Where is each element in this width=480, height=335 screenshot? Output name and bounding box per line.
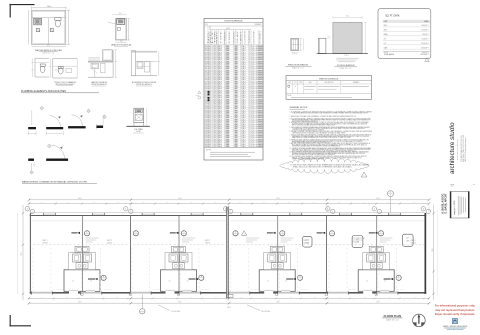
svg-text:WSTRIP: WSTRIP [254, 31, 256, 44]
floor plan: tiny texts above bottom wall [56, 289, 404, 291]
svg-text:484 SQ FT: 484 SQ FT [421, 47, 428, 49]
floor plan: right vertical dimension line [432, 205, 438, 300]
svg-text:8-2: 8-2 [403, 300, 405, 302]
svg-text:REMARKS: REMARKS [255, 23, 262, 26]
svg-text:architecture: architecture [449, 141, 456, 174]
svg-text:A: A [327, 208, 329, 211]
svg-text:10-6: 10-6 [41, 297, 44, 299]
svg-text:may not represent final produc: may not represent final product. [435, 308, 475, 312]
svg-text:12-3: 12-3 [239, 202, 242, 204]
svg-text:12-3: 12-3 [93, 202, 96, 204]
floor plan: dimension lines above [28, 198, 431, 212]
svg-text:1: 1 [332, 211, 333, 213]
svg-text:LABEL: LABEL [239, 31, 242, 44]
floor plan: bottom exterior wall [30, 292, 426, 293]
diagram: door maneuvering clearances row 2 [28, 144, 68, 175]
svg-text:28'-0: 28'-0 [432, 248, 434, 251]
svg-text:2 HOUR WALL: 2 HOUR WALL [261, 310, 271, 313]
svg-text:12-3: 12-3 [214, 202, 217, 204]
svg-text:12-3: 12-3 [363, 202, 366, 204]
floor plan: garage door track dashed lines [33, 248, 397, 292]
svg-text:SCALE: 1/4" = 1'-0": SCALE: 1/4" = 1'-0" [340, 67, 353, 70]
door schedule symbol dots [208, 91, 210, 101]
svg-text:9-0x7-0 OH DR: 9-0x7-0 OH DR [396, 289, 404, 291]
floor plan: circle markers row (upper) [84, 231, 383, 237]
floor plan: unit 3 furnace and water heater stack [264, 246, 291, 269]
svg-text:1: 1 [130, 211, 131, 213]
svg-text:UNIT 1: UNIT 1 [42, 240, 47, 242]
title block: architect name [442, 193, 448, 214]
floor plan: inner face line below top wall [29, 220, 424, 222]
svg-text:8-2: 8-2 [153, 300, 155, 302]
floor plan: dimension lines below [28, 297, 431, 309]
svg-text:NOTES:: NOTES: [206, 149, 212, 151]
floor plan: leader note 1 below [158, 305, 181, 313]
svg-text:C: C [142, 310, 143, 312]
svg-text:24'-6: 24'-6 [276, 198, 279, 200]
svg-text:9'-2: 9'-2 [47, 45, 50, 47]
svg-text:12-3: 12-3 [190, 202, 193, 204]
svg-text:FIRE: FIRE [229, 31, 231, 44]
svg-text:10-6: 10-6 [165, 297, 168, 299]
svg-text:10-6: 10-6 [290, 297, 293, 299]
detail: water heater stand [126, 108, 149, 133]
svg-text:B: B [103, 276, 104, 278]
svg-text:8-2: 8-2 [53, 300, 55, 302]
svg-text:A: A [374, 208, 376, 211]
detail: kitchen elevation D6 [131, 51, 160, 76]
floor plan: window mullions top wall [43, 213, 400, 216]
revision triangle 2 [361, 172, 367, 177]
svg-text:THK: THK [214, 31, 216, 44]
floor plan: unit 4 furnace and water heater stack [363, 246, 390, 269]
floor plan: left vertical dimension line [18, 205, 25, 300]
door schedule data rows [204, 45, 265, 148]
svg-text:4'-0: 4'-0 [119, 13, 122, 15]
svg-text:W.H. STAND: W.H. STAND [134, 128, 144, 131]
svg-text:DATA: DATA [356, 241, 360, 244]
svg-text:STOR.: STOR. [384, 52, 389, 54]
detail: toilet elevation D3 [31, 58, 49, 77]
keynote bubble with stem [388, 191, 394, 214]
label: floor plan title [382, 314, 402, 321]
label for detail D1 [35, 49, 62, 55]
corner mark bottom-left [10, 315, 32, 327]
svg-text:G. BASIL ARCHT: G. BASIL ARCHT [445, 193, 448, 214]
svg-text:studio: studio [449, 122, 456, 140]
svg-text:10-6: 10-6 [414, 297, 417, 299]
svg-text:LAVATORY ROOM PLAN: LAVATORY ROOM PLAN [111, 43, 132, 46]
svg-text:10-6: 10-6 [91, 297, 94, 299]
svg-text:1292 SQ FT: 1292 SQ FT [420, 54, 428, 56]
svg-text:9-0x7-0 OH DR: 9-0x7-0 OH DR [201, 289, 209, 291]
svg-text:24'-6: 24'-6 [178, 198, 181, 200]
svg-text:3'-0: 3'-0 [328, 36, 330, 38]
svg-text:KIT.: KIT. [384, 38, 387, 40]
floor plan: interior partitions [83, 216, 377, 293]
svg-text:112 SQ FT: 112 SQ FT [421, 38, 428, 40]
svg-text:3: 3 [213, 146, 214, 148]
floor plan: keyed callout boxes [303, 234, 414, 247]
detail: lavatory elevation D5 [88, 50, 117, 77]
floor plan: revision triangle at center wall [242, 231, 247, 236]
svg-text:12-3: 12-3 [142, 202, 145, 204]
svg-text:10-6: 10-6 [364, 297, 367, 299]
floor plan: unit 2 mechanical closet [161, 270, 197, 294]
svg-text:UNIT 3: UNIT 3 [205, 240, 210, 242]
title block: address lines [460, 135, 467, 162]
floor plan: unit 4 mechanical closet [358, 270, 394, 294]
builder logo [443, 318, 468, 331]
svg-text:10-6: 10-6 [190, 297, 193, 299]
svg-text:5-0: 5-0 [169, 281, 171, 283]
table: sq ft data [378, 9, 431, 59]
svg-text:5-0: 5-0 [366, 281, 368, 283]
svg-text:8-2: 8-2 [228, 300, 230, 302]
floor plan: small circles at partition feet [81, 293, 378, 296]
svg-text:TYP. 6: TYP. 6 [293, 54, 297, 56]
svg-text:A: A [282, 231, 283, 234]
svg-text:www.basilgrund.example: www.basilgrund.example [447, 328, 464, 331]
svg-text:3: 3 [249, 146, 250, 148]
label: door elevation [334, 64, 357, 70]
label for detail D5 [91, 81, 107, 86]
svg-text:A: A [381, 231, 382, 234]
floor plan: leader arrows lower [88, 278, 393, 280]
svg-text:BATH: BATH [384, 33, 388, 36]
svg-text:WINDOW ELEVATION: WINDOW ELEVATION [288, 64, 309, 67]
heading: plumbing elements and facilities [21, 90, 99, 93]
heading: general notes [290, 106, 308, 109]
svg-text:10-6: 10-6 [339, 297, 342, 299]
svg-text:1255 WEST MAIN STREET SUITE 2: 1255 WEST MAIN STREET SUITE 201 [460, 135, 463, 161]
svg-text:16'-0: 16'-0 [346, 16, 349, 18]
svg-text:MASTER BATH ROOM PLAN: MASTER BATH ROOM PLAN [35, 49, 62, 52]
svg-text:DOOR SCHEDULE: DOOR SCHEDULE [224, 21, 243, 23]
svg-text:12-3: 12-3 [387, 202, 390, 204]
svg-text:8-2: 8-2 [203, 300, 205, 302]
floor plan: unit 1 furnace and water heater stack [69, 246, 96, 269]
svg-text:1: 1 [210, 146, 211, 148]
svg-text:THRESH: THRESH [249, 31, 251, 44]
svg-text:A: A [332, 231, 333, 234]
disclaimer red text [435, 304, 476, 316]
svg-text:WD: WD [210, 27, 212, 44]
svg-text:UNIT: UNIT [356, 239, 359, 241]
floor plan: unit 1 mechanical closet [64, 270, 100, 294]
svg-text:8-2: 8-2 [278, 300, 280, 302]
floor plan: unit dividing wall 2 [326, 216, 328, 293]
svg-text:DATA: DATA [406, 239, 410, 242]
svg-text:WINDOW SCHEDULE: WINDOW SCHEDULE [319, 78, 339, 80]
table: window schedule [286, 76, 372, 100]
svg-text:10-6: 10-6 [116, 297, 119, 299]
svg-text:B: B [398, 276, 399, 278]
detail: window elevation [291, 38, 304, 55]
svg-text:NO.: NO. [208, 28, 210, 43]
floor plan: dropped keynote circle below [140, 294, 145, 315]
svg-text:PT: PT [236, 146, 239, 148]
floor plan: top exterior wall (storefront lines) [30, 213, 426, 216]
svg-text:PAINT: PAINT [259, 145, 265, 148]
svg-text:LAVATORY ELEVATION: LAVATORY ELEVATION [91, 81, 107, 84]
svg-text:10-6: 10-6 [240, 297, 243, 299]
title block: architecture studio logo text [449, 122, 456, 174]
svg-text:SYM: SYM [288, 82, 291, 84]
svg-text:GLAZ: GLAZ [236, 31, 239, 44]
svg-text:A: A [423, 208, 425, 211]
svg-text:5-0: 5-0 [267, 281, 269, 283]
svg-text:8-2: 8-2 [328, 300, 330, 302]
svg-text:ACCESSIBLE KITCHEN COUNTER: ACCESSIBLE KITCHEN COUNTER [132, 81, 157, 84]
svg-text:8-2: 8-2 [303, 300, 305, 302]
svg-text:A: A [135, 231, 136, 234]
svg-text:WD: WD [227, 146, 231, 148]
svg-text:R: R [454, 320, 456, 324]
svg-text:HDWE: HDWE [234, 31, 236, 44]
svg-text:BR-1: BR-1 [384, 25, 388, 27]
door schedule notes [204, 147, 263, 156]
svg-text:SYM: SYM [205, 24, 208, 26]
svg-text:A: A [27, 208, 29, 211]
markers left of door schedule [196, 91, 201, 99]
svg-text:a r c h i t e c t u r e +: a r c h i t e c t u r e + d e s i g n [456, 139, 459, 160]
detail: toilet clearance elevation D4 [49, 59, 77, 78]
svg-text:12-3: 12-3 [166, 202, 169, 204]
label for detail D6 [132, 81, 157, 86]
svg-text:CLOSER: CLOSER [245, 29, 247, 43]
svg-text:13. SEE STRUCTURAL DRAWINGS F: 13. SEE STRUCTURAL DRAWINGS FOR ALL FRAM… [291, 163, 370, 166]
svg-text:12-3: 12-3 [288, 202, 291, 204]
notes under garage door [336, 55, 359, 62]
svg-text:12-3: 12-3 [41, 202, 44, 204]
svg-text:12'-6: 12'-6 [47, 6, 50, 8]
svg-text:12-3: 12-3 [117, 202, 120, 204]
svg-text:10-6: 10-6 [314, 297, 317, 299]
svg-text:28'-0: 28'-0 [21, 252, 23, 255]
svg-text:12-3: 12-3 [338, 202, 341, 204]
svg-text:8-2: 8-2 [378, 300, 380, 302]
svg-text:12-3: 12-3 [313, 202, 316, 204]
svg-text:copyright © 2003: copyright © 2003 [453, 201, 456, 215]
svg-text:A-2: A-2 [243, 145, 246, 148]
svg-text:24'-6: 24'-6 [78, 198, 81, 200]
title block: small date text above box [451, 185, 475, 186]
detail: garage door elevation slab [333, 16, 367, 54]
floor plan: unit 2 furnace and water heater stack [165, 246, 192, 269]
corner mark top-left [10, 4, 35, 18]
svg-text:Buyer should verify if importa: Buyer should verify if important. [435, 312, 475, 316]
svg-text:9-0x7-0 OH DR: 9-0x7-0 OH DR [348, 289, 356, 291]
svg-text:12-3: 12-3 [67, 202, 70, 204]
svg-text:1: 1 [379, 211, 380, 213]
svg-text:5-0: 5-0 [90, 281, 92, 283]
svg-text:FRAME: FRAME [223, 31, 226, 44]
svg-text:B: B [300, 276, 301, 278]
svg-text:2: 2 [364, 175, 365, 177]
svg-text:9-0x7-0 OH DR: 9-0x7-0 OH DR [153, 289, 161, 291]
heading: maneuvering clearances at manual swinging doors [22, 180, 97, 183]
label for detail D2 [111, 43, 132, 46]
floor plan: garage header dashed line [29, 244, 424, 246]
svg-text:For informational purposes onl: For informational purposes only, [435, 304, 476, 308]
svg-text:GAR.: GAR. [384, 46, 388, 49]
svg-text:24'-6: 24'-6 [376, 198, 379, 200]
diagram: door maneuvering clearances row 1 [28, 106, 107, 135]
floor plan: center wall bottom marker box [227, 294, 233, 297]
floor plan: leader note 2 below [247, 305, 271, 313]
svg-text:PLUMBING ELEMENTS AND FACILITI: PLUMBING ELEMENTS AND FACILITIES [21, 90, 66, 93]
svg-text:1: 1 [241, 146, 242, 148]
svg-text:96 SQ FT: 96 SQ FT [422, 52, 429, 54]
svg-text:9-0x7-0 OH DR: 9-0x7-0 OH DR [104, 289, 112, 291]
general notes text block [290, 110, 373, 160]
detail: lavatory plan D2 [108, 13, 130, 42]
svg-text:UNIT: UNIT [306, 240, 309, 242]
svg-text:5-0: 5-0 [187, 281, 189, 283]
svg-text:1 HOUR WALL: 1 HOUR WALL [171, 310, 181, 313]
floor plan: unit dividing wall 1 [130, 216, 132, 293]
svg-text:DESCRIPTION: DESCRIPTION [324, 82, 333, 84]
label for detail D4 [54, 81, 76, 86]
svg-text:DOOR ELEVATION: DOOR ELEVATION [337, 64, 355, 67]
svg-text:10-6: 10-6 [265, 297, 268, 299]
svg-text:168 SQ FT: 168 SQ FT [421, 25, 428, 27]
label: window elevation [285, 64, 311, 70]
svg-text:UNIT: UNIT [406, 238, 409, 240]
svg-text:8-2: 8-2 [353, 300, 355, 302]
svg-text:1: 1 [428, 211, 429, 213]
svg-text:TYPE: TYPE [221, 31, 223, 44]
svg-text:TYPE: TYPE [299, 82, 303, 84]
table: door schedule [204, 18, 263, 160]
svg-text:2. BLE BUILDING CODES AND LOC: 2. BLE BUILDING CODES AND LOCAL ORDINANC… [290, 115, 356, 118]
svg-text:A: A [235, 231, 236, 234]
svg-text:1: 1 [244, 234, 245, 236]
svg-text:1: 1 [230, 211, 231, 213]
svg-text:DOOR: DOOR [226, 28, 230, 30]
svg-text:12-3: 12-3 [413, 202, 416, 204]
svg-text:10-6: 10-6 [66, 297, 69, 299]
floor plan: grid bubbles [25, 207, 430, 214]
svg-text:TYPICAL TOILET CLEARANCES: TYPICAL TOILET CLEARANCES [54, 81, 76, 84]
north arrow [413, 314, 426, 327]
svg-text:MANEUVERING CLEARANCES AT MANU: MANEUVERING CLEARANCES AT MANUAL SWINGIN… [22, 180, 88, 183]
svg-text:UNIT: UNIT [384, 21, 388, 23]
svg-text:GENERAL NOTES: GENERAL NOTES [290, 106, 308, 109]
detail: man door elevation [318, 36, 330, 53]
floor plan: circle markers row (lower) [101, 275, 401, 281]
floor plan: left exterior wall [29, 213, 30, 294]
svg-text:8: 8 [295, 86, 296, 88]
svg-text:9-0x7-0 OH DR: 9-0x7-0 OH DR [56, 289, 64, 291]
svg-text:5-0: 5-0 [285, 281, 287, 283]
ground line under door elevations [317, 53, 369, 55]
svg-text:REMARKS: REMARKS [259, 31, 262, 44]
svg-text:SCALE: 1/4" = 1'-0": SCALE: 1/4" = 1'-0" [292, 67, 305, 70]
svg-text:BASIL GRUND BUILDERS: BASIL GRUND BUILDERS [443, 325, 468, 328]
svg-text:FLOOR PLAN: FLOOR PLAN [384, 314, 402, 318]
svg-text:146: 146 [205, 146, 208, 148]
svg-text:8-2: 8-2 [103, 300, 105, 302]
title block: stamp box [450, 192, 469, 219]
svg-text:5-0: 5-0 [384, 281, 386, 283]
floor plan: unit 3 mechanical closet [259, 270, 295, 294]
svg-text:TYP. 4: TYP. 4 [344, 55, 348, 57]
svg-text:10-6: 10-6 [389, 297, 392, 299]
svg-text:UNIT 2: UNIT 2 [107, 240, 112, 242]
floor plan: center fire wall (double, hatched) [227, 207, 229, 299]
svg-text:12-3: 12-3 [263, 202, 266, 204]
svg-text:SCALE: 1/2" = 1'-0": SCALE: 1/2" = 1'-0" [42, 51, 55, 54]
svg-text:NOTE:: NOTE: [288, 95, 293, 97]
svg-text:6-8: 6-8 [219, 146, 222, 148]
svg-text:10-6: 10-6 [215, 297, 218, 299]
svg-text:B: B [201, 276, 202, 278]
svg-text:9-0x7-0 OH DR: 9-0x7-0 OH DR [299, 289, 307, 291]
revision triangle near sq ft table [425, 58, 429, 62]
floor plan: right exterior wall [425, 213, 427, 294]
svg-text:5-0: 5-0 [72, 281, 74, 283]
svg-text:A: A [183, 231, 184, 234]
svg-text:2'-8: 2'-8 [120, 41, 123, 43]
svg-text:SQ. FT. DATA: SQ. FT. DATA [385, 15, 400, 18]
detail: master bath plan D1 [29, 6, 70, 47]
floor plan: unit labels and notes [42, 238, 416, 244]
revision cloud around last note [280, 158, 370, 173]
svg-text:REMARKS: REMARKS [353, 81, 360, 84]
svg-text:58 SQ FT: 58 SQ FT [422, 34, 429, 36]
floor plan: leader arrows upper [71, 232, 377, 234]
svg-text:SIZE: SIZE [309, 82, 312, 84]
floor plan: garage door openings bottom wall [31, 291, 398, 294]
svg-text:98'-0: 98'-0 [227, 307, 230, 309]
svg-text:9-0x7-0 OH DR: 9-0x7-0 OH DR [251, 289, 259, 291]
svg-text:8-2: 8-2 [128, 300, 130, 302]
svg-text:8-2: 8-2 [253, 300, 255, 302]
svg-text:A: A [87, 231, 88, 234]
svg-text:A: A [390, 191, 391, 194]
svg-text:HT: HT [212, 31, 214, 44]
svg-text:A: A [125, 208, 127, 211]
svg-text:QTY: QTY [294, 82, 297, 84]
svg-text:1: 1 [32, 211, 33, 213]
svg-text:SCALE: 1/8" = 1'-0": SCALE: 1/8" = 1'-0" [386, 318, 400, 321]
